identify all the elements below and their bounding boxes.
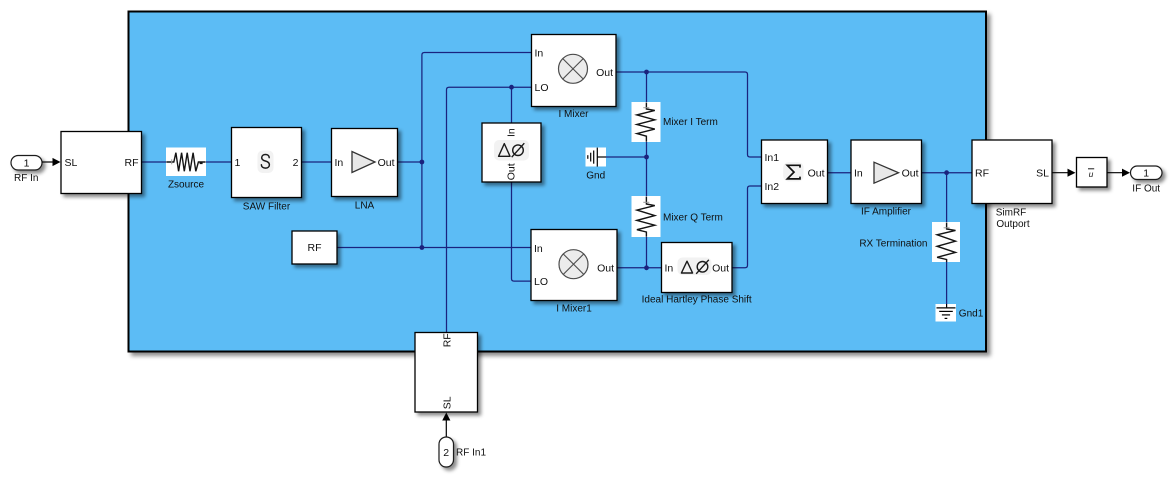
svg-text:LO: LO (535, 82, 549, 94)
junction dot at RF goto tee (420, 245, 425, 250)
arrow RF In oval to block SL (42, 158, 61, 166)
svg-text:2: 2 (293, 157, 299, 169)
resistor Mixer Q Term (632, 196, 723, 237)
svg-text:SL: SL (1036, 168, 1049, 180)
svg-text:Gnd1: Gnd1 (959, 309, 984, 320)
svg-text:In: In (534, 243, 543, 255)
ground Gnd (rotated) (586, 148, 607, 182)
svg-text:1: 1 (235, 157, 241, 169)
wire junction down to lower junction (421, 162, 423, 248)
svg-text:RF: RF (308, 242, 322, 254)
svg-text:Mixer I Term: Mixer I Term (663, 117, 718, 128)
svg-text:1: 1 (1143, 168, 1149, 180)
block rotated RF->SL (bottom) (415, 333, 478, 413)
wire Hartley Out up to sum In2 (732, 186, 762, 268)
svg-text:In: In (665, 263, 674, 275)
wire junction down to RX Termination (946, 173, 948, 222)
wire I Mixer Out to In1 of sum (616, 72, 762, 157)
svg-text:Mixer Q Term: Mixer Q Term (663, 213, 723, 224)
svg-text:Outport: Outport (996, 219, 1030, 230)
junction dot at I Mixer1 out (644, 265, 649, 270)
junction dot at RX termination tap (944, 170, 949, 175)
wire phase shift Out down to I Mixer1 LO (512, 183, 532, 282)
wire RX Termination to Gnd1 (946, 262, 948, 305)
svg-text:Zsource: Zsource (168, 180, 205, 191)
wire sum Out to IF Amplifier In (828, 172, 852, 174)
wire IF Amplifier Out to SimRF Outport RF (922, 172, 973, 174)
svg-text:Out: Out (902, 168, 919, 180)
block signal conversion u-bar (1077, 158, 1108, 188)
resistor Zsource (166, 148, 206, 191)
svg-text:RF: RF (975, 168, 989, 180)
svg-text:In: In (854, 168, 863, 180)
arrow from oval 2 to rotated block SL (442, 413, 450, 438)
junction dot at I Mixer out (644, 70, 649, 75)
block U1 SimRF inport converter SL->RF (61, 132, 142, 194)
svg-text:I Mixer1: I Mixer1 (556, 304, 592, 315)
svg-text:IF Amplifier: IF Amplifier (861, 206, 912, 217)
svg-text:RF: RF (125, 157, 139, 169)
junction dot at LNA split (420, 160, 425, 165)
block SimRF Outport (972, 140, 1052, 230)
svg-text:1: 1 (24, 158, 30, 170)
block Ideal Hartley Phase Shift (642, 243, 752, 306)
wire LNA Out to junction (398, 161, 422, 163)
inport oval 2 RF In1 (439, 437, 486, 467)
wire Gnd to junction (606, 156, 647, 158)
svg-text:Out: Out (597, 263, 614, 275)
svg-text:In: In (335, 157, 344, 169)
wire Zsource to SAW Filter port 1 (206, 161, 232, 163)
wire LO junction down to phase shift In (511, 87, 513, 122)
inport oval 1 RF In (11, 156, 42, 185)
svg-text:SAW Filter: SAW Filter (243, 201, 291, 212)
junction dot at LO phase-shift tap (509, 85, 514, 90)
svg-text:RF: RF (442, 333, 454, 347)
wire Mixer Q Term bottom to junction (646, 237, 648, 268)
svg-text:Ideal Hartley Phase Shift: Ideal Hartley Phase Shift (642, 295, 752, 306)
wire main signal y=162 from block1 RF to Zsource (142, 161, 167, 163)
wire junction up to I Mixer In (422, 53, 532, 163)
block phase shift (vertical, unnamed) (482, 123, 541, 182)
svg-text:In1: In1 (765, 152, 780, 164)
svg-text:LNA: LNA (355, 201, 375, 212)
svg-text:RF In1: RF In1 (456, 448, 486, 459)
block sum U2 (762, 140, 828, 204)
svg-text:LO: LO (534, 276, 548, 288)
svg-text:In: In (506, 128, 518, 137)
wire I Mixer1 Out to Hartley In (617, 267, 662, 269)
junction dot at Gnd tee (644, 155, 649, 160)
svg-text:Out: Out (808, 168, 825, 180)
wire junction down through Mixer I Term (646, 72, 648, 103)
svg-text:SimRF: SimRF (996, 208, 1027, 219)
svg-text:Gnd: Gnd (586, 170, 605, 181)
svg-text:I Mixer: I Mixer (559, 109, 590, 120)
wire Mixer I Term bottom to Gnd junction (646, 142, 648, 197)
arrow SimRF Outport SL to u-block (1052, 169, 1076, 177)
svg-text:Out: Out (378, 157, 395, 169)
svg-text:2: 2 (443, 447, 449, 459)
block LNA (332, 129, 398, 212)
block I Mixer1 (531, 230, 617, 315)
svg-text:In: In (535, 47, 544, 59)
svg-text:u: u (1089, 170, 1094, 179)
block I Mixer (532, 35, 617, 120)
wire RF goto block to I Mixer1 In (337, 247, 531, 249)
svg-text:Out: Out (506, 163, 518, 180)
outport oval 1 IF Out (1131, 166, 1163, 195)
svg-text:SL: SL (65, 157, 78, 169)
wire LO vertical from y=87 down to bottom rotated block (447, 87, 532, 332)
svg-text:IF Out: IF Out (1132, 184, 1160, 195)
arrow u-block to IF Out oval (1107, 169, 1130, 177)
svg-text:Out: Out (712, 263, 729, 275)
svg-text:Out: Out (596, 67, 613, 79)
svg-text:RX Termination: RX Termination (859, 238, 927, 249)
svg-text:RF In: RF In (14, 173, 38, 184)
svg-text:In2: In2 (765, 181, 780, 193)
resistor RX Termination (859, 222, 960, 262)
block RF goto tag (292, 231, 337, 264)
ground Gnd1 (936, 304, 984, 322)
resistor Mixer I Term (632, 102, 718, 142)
block IF Amplifier (851, 140, 922, 217)
block SAW Filter (232, 128, 302, 213)
subsystem background rectangle (129, 12, 987, 352)
wire SAW Filter port 2 to LNA In (302, 161, 332, 163)
svg-text:SL: SL (442, 396, 454, 409)
